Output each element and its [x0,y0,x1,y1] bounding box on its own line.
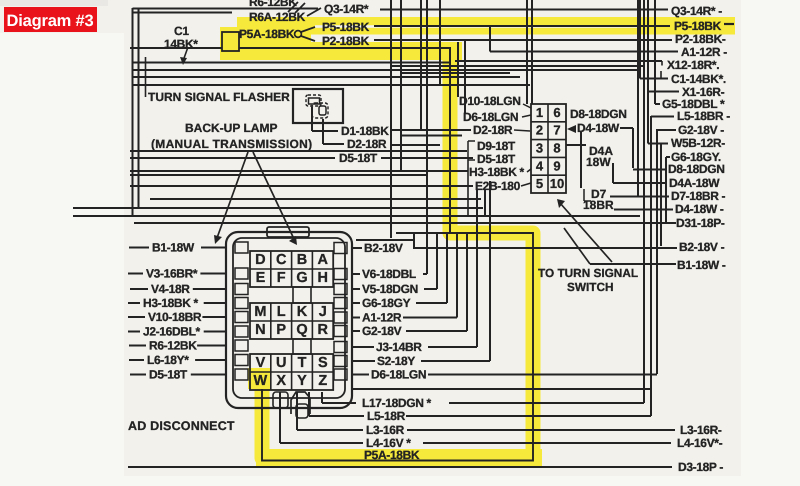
svg-text:D8-18DGN: D8-18DGN [570,107,627,121]
svg-text:X: X [276,373,286,389]
wire S2 fan [421,360,490,362]
wire P5-18BK [374,25,670,27]
svg-text:L: L [277,304,286,320]
svg-text:Z: Z [318,373,327,389]
wire X1-16R / W5B-12R [648,91,679,93]
wire L3 step [296,392,298,430]
wire [352,317,360,319]
wire V5 fan [424,288,437,290]
svg-text:1: 1 [536,105,543,120]
pin stub [235,298,248,309]
flasher symbol [306,95,321,106]
svg-text:8: 8 [553,141,560,156]
svg-text:D7-18BR -: D7-18BR - [671,189,726,203]
wire R6-12BK to connector [197,345,226,347]
wire P5 dash [724,23,734,25]
pin stub [334,312,347,323]
wire [426,0,428,233]
wire [352,388,651,390]
svg-text:G6-18GY: G6-18GY [362,296,411,310]
splice symbol [288,2,298,12]
svg-text:C1: C1 [174,24,189,38]
svg-text:6: 6 [553,105,560,120]
wire G2 fan [406,330,467,332]
wire D5 [130,157,335,159]
svg-text:C: C [276,252,287,268]
svg-text:D4-18W -: D4-18W - [675,202,724,216]
wire P5A vertical highlighted [449,47,451,233]
svg-text:J2-16DBL*: J2-16DBL* [143,325,201,339]
svg-text:V10-18BR: V10-18BR [148,310,202,324]
connector grid line [531,174,566,176]
svg-text:M: M [254,304,266,320]
wire V10-18BR to connector [202,316,226,318]
wire H3-18BK * dash [128,302,140,304]
svg-text:P2-18BK: P2-18BK [322,34,370,48]
wire D9 [130,150,467,152]
connector pin grid [250,251,333,287]
svg-text:TURN SIGNAL FLASHER: TURN SIGNAL FLASHER [148,90,290,104]
wire [133,12,233,14]
pin stub [334,284,347,295]
wire D4-18W tick [567,125,576,133]
wire B2 vertical [660,144,662,247]
wire L4 [423,442,671,444]
svg-text:P5A-18BK: P5A-18BK [239,27,295,41]
wire [464,40,466,114]
svg-text:B: B [297,252,307,268]
svg-text:E2B-180: E2B-180 [475,179,521,193]
wire P5A highlighted path [262,233,533,461]
svg-text:L5-18BR -: L5-18BR - [677,109,730,123]
svg-text:9: 9 [553,158,560,173]
connector group tab [293,339,311,354]
splice P5A [295,31,302,38]
wire D4A [566,144,586,146]
wire [396,232,450,234]
svg-text:TO TURN SIGNAL: TO TURN SIGNAL [538,266,638,280]
wire A1-12R [490,51,678,53]
arrow to turn signal connector [560,203,612,262]
svg-text:L5-18R: L5-18R [367,409,406,423]
svg-text:7: 7 [553,123,560,138]
wire B2 fan [413,234,415,248]
svg-text:L4-16V*-: L4-16V*- [677,436,723,450]
connector bottom tab [291,392,310,414]
wire V6 fan [423,273,427,275]
wire D6-18LGN [428,374,657,376]
wire X12 [455,60,662,62]
wire D4-18W [614,209,673,211]
svg-text:R: R [318,322,329,338]
svg-text:Diagram #3: Diagram #3 [7,12,94,30]
wire L17 vertical [643,0,645,403]
badge Diagram #3 [4,7,97,32]
svg-text:G2-18V -: G2-18V - [678,123,724,137]
svg-text:F: F [277,270,286,286]
wire J2-16DBL* dash [128,331,140,333]
svg-text:A1-12R: A1-12R [362,311,402,325]
arrow to C1 wire [183,47,188,61]
wire D5-18T dash [130,374,146,376]
pin stub [334,326,347,337]
label D7 18BR [583,189,585,201]
wire L3 [407,429,675,431]
wire [391,144,440,146]
svg-text:G2-18V: G2-18V [362,324,402,338]
wire L4 step [279,392,281,443]
wire [352,273,360,275]
svg-text:D: D [255,252,265,268]
wire [352,247,362,249]
wire [133,62,449,64]
svg-text:B1-18W: B1-18W [152,241,195,255]
pin stub [334,369,347,380]
wire G2/D6 vertical [656,129,658,374]
pin stub [235,312,248,323]
svg-text:D6-18LGN: D6-18LGN [463,110,518,124]
pin stub [334,356,347,367]
svg-text:D8-18DGN: D8-18DGN [668,162,725,176]
wire E2B elbow [484,190,486,215]
highlight gap [315,25,640,28]
pin stub [334,243,347,254]
highlight wire path W to fork [262,52,533,458]
wire [133,8,319,10]
svg-text:H3-18BK *: H3-18BK * [143,296,199,310]
svg-text:D1-18BK: D1-18BK [341,124,389,138]
wire [356,239,414,241]
svg-text:W5B-12R-: W5B-12R- [671,136,725,150]
svg-text:Q: Q [296,322,307,338]
svg-text:S: S [318,355,328,371]
wire [130,174,427,176]
wire fork upper [301,27,315,32]
svg-text:G: G [296,270,307,286]
connector grid line [531,121,566,123]
wire [352,374,369,376]
svg-text:V: V [256,355,266,371]
pin stub [235,340,248,351]
highlight P5A-18BK bottom label band [256,449,542,466]
svg-text:D4A-18W: D4A-18W [669,176,720,190]
connector grid line [531,139,566,141]
connector bulkhead inner shell [233,238,345,398]
wire H3-18BK * to connector [204,302,226,304]
svg-text:N: N [255,322,265,338]
wire L5 vertical [650,116,652,416]
connector pin grid [250,354,333,390]
pin stub [334,342,347,353]
wire [352,360,375,362]
wire [352,346,374,348]
svg-text:Q3-14R*: Q3-14R* [324,2,369,16]
svg-text:2: 2 [536,123,543,138]
wire V4-18R dash [130,288,148,290]
svg-text:D9-18T: D9-18T [477,139,516,153]
svg-text:B2-18V -: B2-18V - [679,240,725,254]
pin stub [235,369,248,380]
svg-text:D4-18W: D4-18W [577,121,620,135]
highlight cell W [248,368,271,389]
svg-text:L3-16R: L3-16R [366,423,405,437]
wire L17 step [321,392,323,403]
wire [133,84,530,86]
wire [390,0,392,238]
svg-text:H: H [318,270,328,286]
wire G6/D31 vertical [665,157,667,222]
pin stub [235,284,248,295]
highlight P5A fork area [220,27,462,60]
wire P2-18BK [374,39,672,41]
svg-text:S2-18Y: S2-18Y [377,354,415,368]
svg-text:18W: 18W [586,155,611,169]
wire [138,8,140,207]
svg-text:D10-18LGN: D10-18LGN [459,94,521,108]
wire P5A highlighted [130,47,222,49]
svg-text:R6-12BK: R6-12BK [249,0,297,9]
wire [73,215,640,217]
wire [145,57,147,97]
svg-text:D6-18LGN: D6-18LGN [371,368,426,382]
wire C1-14BK [640,78,668,80]
wire [150,198,481,200]
wire V3-16BR* dash [128,273,143,275]
wire [457,42,459,97]
connector top tab [267,227,309,237]
svg-text:T: T [298,355,307,371]
connector grid line [531,156,566,158]
connector bottom tab [296,404,308,418]
svg-text:5: 5 [536,176,543,191]
wire [531,0,533,104]
wire D31-18P [134,222,676,224]
wire [526,0,528,104]
wire V4-18R to connector [193,288,226,290]
svg-text:A: A [318,252,329,268]
svg-text:D5-18T: D5-18T [149,368,188,382]
svg-text:E: E [256,270,266,286]
svg-text:D5-18T: D5-18T [339,151,378,165]
flasher box [293,89,343,123]
wire H3 [130,170,468,172]
wire [580,132,582,188]
svg-text:D3-18P -: D3-18P - [678,460,723,474]
svg-text:L17-18DGN *: L17-18DGN * [362,396,432,410]
pin stub [334,269,347,280]
wire D4A-18W [612,163,614,183]
wire [352,288,360,290]
svg-text:18BR: 18BR [583,198,614,212]
wire L6-18Y* dash [129,359,144,361]
svg-text:D2-18R: D2-18R [347,137,387,151]
svg-text:Q3-14R* -: Q3-14R* - [671,4,722,18]
svg-text:V6-18DBL: V6-18DBL [362,267,416,281]
svg-text:K: K [297,304,308,320]
svg-text:L3-16R-: L3-16R- [680,423,722,437]
highlight P5-18BK top stripe [237,17,735,35]
wire [307,8,321,16]
wire [439,0,441,86]
svg-text:4: 4 [536,158,544,173]
svg-text:BACK-UP LAMP: BACK-UP LAMP [185,121,277,135]
svg-text:V3-16BR*: V3-16BR* [146,267,198,281]
wire L5 step [308,392,310,416]
svg-text:B1-18W -: B1-18W - [677,258,726,272]
svg-text:D31-18P-: D31-18P- [676,216,725,230]
svg-text:Y: Y [297,373,307,389]
wire B1-18W diagonal [564,228,590,264]
wire D1 from flasher [311,107,313,131]
connector turn-signal-switch shell [531,104,566,193]
wire [420,0,422,130]
wire [352,302,360,304]
connector bottom tab [273,392,288,408]
svg-text:L6-18Y*: L6-18Y* [147,353,189,367]
svg-text:B2-18V: B2-18V [364,241,403,255]
wire D8-18DGN right [633,169,666,171]
svg-text:J: J [319,304,327,320]
wire [132,8,134,215]
wire J3 fan [428,346,477,348]
connector divider [547,104,549,193]
svg-text:P5-18BK: P5-18BK [322,20,370,34]
svg-text:D2-18R: D2-18R [473,123,513,137]
svg-text:10: 10 [550,176,564,191]
wire [392,129,470,131]
wire [637,0,639,196]
svg-text:(MANUAL TRANSMISSION): (MANUAL TRANSMISSION) [151,137,312,151]
svg-text:H3-18BK *: H3-18BK * [469,165,525,179]
svg-text:V4-18R: V4-18R [151,282,190,296]
arrow to B1 wire [217,152,248,238]
wire [133,76,520,78]
wire J2-16DBL* to connector [204,331,226,333]
svg-text:V5-18DGN: V5-18DGN [362,282,418,296]
svg-text:SWITCH: SWITCH [567,280,614,294]
connector bulkhead outer shell [226,232,352,408]
arrow to connector [253,152,294,239]
svg-text:P5A-18BK: P5A-18BK [364,448,420,462]
wire A1 fan [403,317,457,319]
svg-text:3: 3 [536,141,543,156]
connector pin grid [250,303,333,339]
svg-text:AD DISCONNECT: AD DISCONNECT [128,419,235,433]
label D2-18R [465,129,471,131]
wire L6-18Y* to connector [195,359,226,361]
wire E2B [130,185,473,187]
wire B2-18V [413,247,677,249]
connector group tab [293,287,311,303]
svg-text:R6A-12BK: R6A-12BK [249,10,306,24]
wire [352,330,360,332]
wire [400,0,402,170]
svg-text:R6-12BK: R6-12BK [149,339,197,353]
wire [133,69,640,71]
wire L17 [449,402,644,404]
wire B1 to connector [201,247,226,249]
svg-text:A1-12R -: A1-12R - [681,45,727,59]
svg-text:P5-18BK: P5-18BK [674,19,722,33]
pin stub [235,326,248,337]
wire G5-18DBL [655,103,660,105]
wire V3-16BR* to connector [200,273,226,275]
wire fork lower [301,36,315,41]
pin stub [235,268,248,279]
pin stub [235,355,248,366]
wire Q3-14R [380,9,668,11]
svg-text:W: W [254,373,268,389]
svg-text:C1-14BK*.: C1-14BK*. [671,72,726,86]
wire R6-12BK dash [129,345,146,347]
paper margins [0,33,124,486]
wire [620,127,633,129]
wire G6 fan [416,302,447,304]
pin stub [334,298,347,309]
connector C1 on P5A wire [222,32,239,51]
svg-text:J3-14BR: J3-14BR [376,340,422,354]
wire [391,65,644,67]
wire [73,207,483,209]
svg-text:U: U [276,355,286,371]
svg-text:X12-18R*.: X12-18R*. [667,58,719,72]
wire V10-18BR dash [128,316,145,318]
wire B1-18W dash [129,247,149,249]
svg-text:P: P [276,322,286,338]
wire D7-18BR [610,196,669,198]
svg-text:D5-18T: D5-18T [477,152,516,166]
wire L5 [406,415,651,417]
bracket D9/D5 [467,141,469,160]
wire [401,72,510,74]
wire [401,135,462,137]
wire bottom rail [128,466,672,468]
svg-text:P2-18BK-: P2-18BK- [675,32,726,46]
wire D2 from flasher [322,119,324,144]
pin stub [235,242,248,253]
scan edge shade [0,0,108,6]
wire D5-18T to connector [191,374,226,376]
